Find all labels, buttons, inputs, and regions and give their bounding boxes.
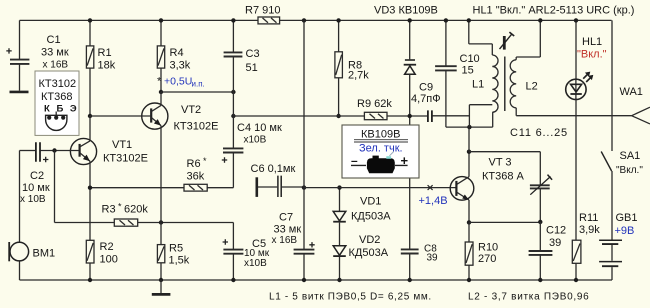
- node: C8 to common rail: [408, 278, 412, 282]
- node: C2/R3/VT1 base junction: [52, 148, 56, 152]
- node: C3/R7 on supply rail: [231, 18, 235, 22]
- capacitor C12: [529, 222, 567, 280]
- svg-text:R11: R11: [579, 212, 598, 224]
- resistor R11: [572, 212, 600, 280]
- node: R10 to common rail: [467, 278, 471, 282]
- node: R5 to common rail: [159, 278, 163, 282]
- transistor VT2: [90, 92, 218, 223]
- node: C3 column / oscillator feed junction: [231, 114, 235, 118]
- svg-text:*: *: [203, 156, 207, 166]
- svg-text:R9 62k: R9 62k: [357, 98, 392, 110]
- legend box KT3102/KT368 pinout: [35, 71, 79, 135]
- svg-text:х 16В: х 16В: [43, 60, 69, 71]
- svg-text:КТ3102: КТ3102: [39, 78, 77, 90]
- svg-text:х10В: х10В: [244, 258, 267, 269]
- svg-text:R7 910: R7 910: [245, 5, 280, 17]
- wire: x=304 column (C7 branch): [303, 20, 305, 249]
- svg-text:Зел. тчк.: Зел. тчк.: [359, 143, 403, 155]
- resistor R6: [90, 156, 233, 191]
- wire: bottom common rail: [20, 279, 613, 281]
- capacitor C6: [251, 163, 305, 197]
- svg-text:VT 3: VT 3: [489, 157, 512, 169]
- svg-text:SA1: SA1: [620, 150, 641, 162]
- node: L1 top on supply rail: [467, 18, 471, 22]
- svg-text:VD1: VD1: [360, 196, 381, 208]
- node: C6 right junction: [302, 185, 306, 189]
- capacitor C9: [411, 82, 441, 123]
- capacitor C2: [20, 142, 50, 205]
- svg-text:33 мк: 33 мк: [41, 47, 69, 59]
- microphone BM1: [9, 151, 55, 281]
- svg-text:3,9k: 3,9k: [579, 224, 600, 236]
- diode VD1: [333, 188, 391, 246]
- wire: top +supply rail: [20, 19, 612, 21]
- wire: antenna line: [516, 115, 631, 117]
- svg-text:C3: C3: [246, 48, 260, 60]
- node: L2 top on supply rail: [538, 18, 542, 22]
- svg-text:КТ368: КТ368: [41, 91, 72, 103]
- label: *+0,5U measurement: [157, 76, 205, 89]
- svg-text:4,7пФ: 4,7пФ: [411, 93, 441, 105]
- node: C12 to common rail: [538, 278, 542, 282]
- trimmer core arrow: [500, 32, 515, 50]
- svg-text:100: 100: [100, 254, 118, 266]
- svg-text:VD2: VD2: [359, 234, 380, 246]
- svg-text:х 16В: х 16В: [272, 235, 298, 246]
- svg-text:270: 270: [478, 253, 496, 265]
- wire: varicap control line y=116: [233, 115, 469, 117]
- svg-text:R5: R5: [169, 243, 183, 255]
- svg-text:L1: L1: [472, 79, 484, 91]
- svg-text:VT2: VT2: [181, 104, 201, 116]
- svg-text:HL1: HL1: [582, 36, 602, 48]
- LED HL1: [566, 20, 607, 99]
- svg-text:К Б Э: К Б Э: [44, 104, 79, 115]
- wire: HL1 to R11: [575, 98, 577, 240]
- svg-text:C11 6...25: C11 6...25: [510, 127, 568, 139]
- svg-text:КТ3102Е: КТ3102Е: [174, 121, 219, 133]
- resistor R9: [357, 98, 392, 120]
- node: C5 to common rail: [231, 278, 235, 282]
- svg-text:620k: 620k: [124, 204, 148, 216]
- capacitor C10: [435, 20, 493, 127]
- svg-text:и.п.: и.п.: [192, 80, 205, 89]
- node: VT3 collector junction: [467, 150, 471, 154]
- svg-text:51: 51: [246, 62, 258, 74]
- svg-text:*: *: [118, 202, 122, 212]
- svg-text:2,7k: 2,7k: [348, 70, 369, 82]
- trimmer capacitor C11: [510, 127, 568, 222]
- svg-text:39: 39: [427, 253, 439, 264]
- capacitor C4: [222, 122, 282, 188]
- node: R8 on supply rail: [336, 18, 340, 22]
- wire: VT3 base line: [304, 187, 456, 189]
- svg-text:10 мк: 10 мк: [22, 182, 50, 194]
- battery GB1: [599, 212, 637, 280]
- svg-text:C9: C9: [419, 82, 433, 94]
- node: VD3 on supply rail: [408, 18, 412, 22]
- svg-text:КВ109В: КВ109В: [361, 129, 400, 141]
- node: L1 tap junction: [467, 125, 471, 129]
- svg-text:L2: L2: [526, 81, 538, 93]
- svg-text:*: *: [157, 76, 162, 88]
- wire: R4 node to C3 column: [161, 91, 233, 93]
- svg-text:+0,5U: +0,5U: [164, 76, 192, 88]
- diode VD2: [333, 234, 389, 280]
- resistor R10: [465, 222, 498, 280]
- capacitor C5: [223, 223, 270, 281]
- svg-text:VD3 КВ109В: VD3 КВ109В: [374, 5, 438, 17]
- capacitor C1: [6, 20, 69, 92]
- svg-text:КТ368 А: КТ368 А: [482, 171, 525, 183]
- svg-text:C7: C7: [279, 212, 293, 224]
- transistor VT3: [450, 152, 524, 223]
- node: R1 on supply rail: [88, 18, 92, 22]
- svg-text:КТ3102Е: КТ3102Е: [103, 153, 148, 165]
- svg-text:+1,4В: +1,4В: [419, 195, 448, 207]
- ground symbol: [152, 280, 171, 294]
- svg-text:+9В: +9В: [615, 225, 635, 237]
- svg-text:3,3k: 3,3k: [170, 60, 191, 72]
- svg-text:1,5k: 1,5k: [169, 255, 190, 267]
- svg-text:R4: R4: [170, 47, 184, 59]
- node: C10 on supply rail: [444, 18, 448, 22]
- svg-text:х 10В: х 10В: [20, 194, 46, 205]
- node: VD2 to common rail: [337, 278, 341, 282]
- node: R11 to common rail: [574, 278, 578, 282]
- inductor L2: [510, 20, 540, 115]
- node: C7 to common rail: [302, 278, 306, 282]
- transformer core: [504, 57, 506, 112]
- resistor R5: [157, 223, 189, 281]
- resistor R4: [157, 20, 190, 92]
- svg-text:–: –: [351, 154, 358, 168]
- svg-text:18k: 18k: [98, 60, 116, 72]
- svg-text:33 мк: 33 мк: [274, 224, 302, 236]
- node: R1/VT1 collector/VT2 base junction: [88, 114, 92, 118]
- svg-text:R3: R3: [102, 204, 116, 216]
- svg-text:+: +: [401, 153, 409, 168]
- svg-text:VT1: VT1: [112, 139, 132, 151]
- resistor R2: [86, 240, 118, 280]
- node: R4/VT2 collector junction: [159, 90, 163, 94]
- resistor R3: [55, 151, 234, 227]
- svg-text:R2: R2: [100, 241, 114, 253]
- svg-text:R10: R10: [478, 242, 498, 254]
- wire: collector line to C11: [469, 127, 540, 152]
- svg-text:R6: R6: [187, 158, 201, 170]
- capacitor C8: [401, 244, 438, 281]
- svg-text:C2: C2: [30, 170, 44, 182]
- inductor L1: [469, 20, 498, 127]
- antenna WA1: [620, 86, 650, 124]
- resistor R8: [335, 20, 369, 116]
- svg-text:39: 39: [549, 237, 561, 249]
- capacitor C3: [224, 20, 260, 92]
- svg-text:15: 15: [462, 65, 474, 77]
- node: HL1 on supply rail: [574, 18, 578, 22]
- svg-text:36k: 36k: [187, 171, 205, 183]
- svg-text:C1: C1: [47, 34, 61, 46]
- capacitor C7: [272, 212, 315, 281]
- measurement tick x: [428, 185, 433, 190]
- svg-text:L2 - 3,7 витка ПЭВ0,96: L2 - 3,7 витка ПЭВ0,96: [468, 292, 589, 303]
- node: R2 to common rail: [88, 278, 92, 282]
- svg-text:C6 0,1мк: C6 0,1мк: [251, 163, 296, 175]
- node: VT1 emitter/R6 junction: [88, 186, 92, 190]
- resistor R1: [86, 20, 115, 116]
- svg-text:C10: C10: [460, 53, 480, 65]
- transistor VT1: [40, 116, 148, 240]
- switch SA1: [601, 20, 643, 240]
- node: C7 column on supply rail: [302, 18, 306, 22]
- svg-text:"Вкл.": "Вкл.": [616, 165, 643, 176]
- svg-text:C4 10 мк: C4 10 мк: [237, 122, 282, 134]
- svg-text:КД503А: КД503А: [349, 247, 389, 259]
- svg-text:GB1: GB1: [616, 212, 638, 224]
- svg-text:х10В: х10В: [244, 135, 267, 146]
- wire: emitter line to C12: [469, 221, 540, 223]
- svg-text:C12: C12: [546, 225, 566, 237]
- svg-text:BM1: BM1: [33, 248, 56, 260]
- svg-text:"Вкл.": "Вкл.": [577, 49, 607, 61]
- varicap VD3: [374, 5, 438, 250]
- svg-text:HL1 "Вкл." ARL2-5113 URC (кр.: HL1 "Вкл." ARL2-5113 URC (кр.): [473, 5, 635, 17]
- node: R3/R5/VT2 emitter junction: [159, 220, 163, 224]
- node: VT3 emitter junction: [467, 220, 471, 224]
- svg-text:КД503А: КД503А: [351, 211, 391, 223]
- legend box KV109V: [342, 125, 419, 178]
- svg-text:R1: R1: [98, 47, 112, 59]
- resistor R7: [245, 5, 280, 24]
- svg-text:WA1: WA1: [620, 86, 643, 98]
- svg-text:L1 - 5 витк ПЭВ0,5 D= 6,25: L1 - 5 витк ПЭВ0,5 D= 6,25 мм.: [269, 292, 432, 303]
